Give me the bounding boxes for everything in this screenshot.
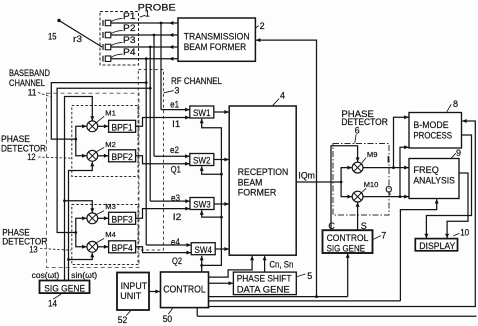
svg-text:I2: I2 (173, 212, 182, 222)
svg-text:cos(ωt): cos(ωt) (32, 271, 60, 280)
svg-text:11: 11 (28, 87, 37, 97)
svg-text:S: S (361, 221, 367, 231)
svg-text:BPF1: BPF1 (111, 122, 133, 133)
svg-text:e1: e1 (170, 100, 179, 110)
svg-text:M10: M10 (364, 180, 379, 189)
svg-text:7: 7 (381, 230, 386, 240)
svg-text:10: 10 (460, 227, 469, 237)
svg-text:4: 4 (280, 90, 285, 100)
svg-text:M9: M9 (367, 150, 378, 159)
svg-text:sin(ωt): sin(ωt) (71, 271, 97, 280)
svg-text:SW1: SW1 (193, 107, 211, 118)
svg-text:DETECTOR: DETECTOR (2, 235, 47, 246)
svg-text:B-MODE: B-MODE (413, 120, 448, 131)
svg-text:I: I (387, 155, 389, 165)
svg-text:I1: I1 (172, 119, 180, 129)
svg-text:P3: P3 (123, 35, 136, 45)
svg-text:M3: M3 (105, 202, 116, 211)
svg-text:DETECTOR: DETECTOR (1, 142, 46, 153)
svg-text:Cn, Sn: Cn, Sn (269, 259, 293, 269)
svg-text:CONTROL: CONTROL (163, 285, 206, 296)
svg-text:BPF3: BPF3 (111, 214, 133, 225)
svg-text:P1: P1 (123, 11, 136, 21)
svg-text:CHANNEL: CHANNEL (9, 77, 45, 88)
svg-text:Q: Q (385, 184, 392, 194)
svg-text:C: C (328, 221, 335, 231)
svg-text:BEAM FORMER: BEAM FORMER (184, 42, 247, 53)
svg-text:PHASE SHIFT: PHASE SHIFT (237, 274, 292, 285)
svg-text:3: 3 (174, 85, 179, 95)
svg-text:DETECTOR: DETECTOR (341, 116, 388, 127)
svg-text:SW3: SW3 (193, 199, 211, 210)
svg-text:1: 1 (145, 9, 150, 19)
svg-text:SW4: SW4 (194, 244, 212, 255)
svg-text:BPF2: BPF2 (111, 152, 133, 163)
svg-text:6: 6 (355, 125, 360, 135)
svg-text:FORMER: FORMER (238, 188, 277, 199)
svg-text:ANALYSIS: ANALYSIS (413, 175, 455, 186)
svg-text:CONTROL: CONTROL (327, 233, 369, 244)
svg-text:PROBE: PROBE (138, 1, 176, 12)
svg-text:e2: e2 (170, 145, 179, 155)
svg-text:5: 5 (307, 271, 312, 281)
svg-text:e3: e3 (171, 193, 180, 203)
svg-text:IQm: IQm (298, 170, 315, 180)
svg-text:DATA GENE: DATA GENE (237, 285, 290, 296)
svg-text:r3: r3 (73, 34, 82, 44)
svg-text:P2: P2 (123, 23, 136, 33)
svg-text:P4: P4 (123, 47, 136, 57)
svg-text:e4: e4 (171, 237, 180, 247)
svg-text:12: 12 (27, 152, 36, 162)
svg-text:PROCESS: PROCESS (413, 131, 452, 142)
svg-text:52: 52 (118, 315, 128, 325)
svg-text:M1: M1 (105, 108, 116, 117)
svg-text:15: 15 (48, 31, 57, 41)
svg-text:M4: M4 (105, 230, 116, 239)
svg-text:M2: M2 (105, 140, 116, 149)
svg-text:Q1: Q1 (171, 165, 181, 175)
svg-text:8: 8 (453, 99, 458, 109)
svg-text:Q2: Q2 (172, 256, 182, 266)
svg-text:SIG GENE: SIG GENE (44, 283, 85, 294)
svg-text:9: 9 (456, 148, 461, 158)
svg-text:2: 2 (260, 21, 265, 31)
svg-text:UNIT: UNIT (120, 291, 141, 302)
svg-text:SW2: SW2 (193, 155, 211, 166)
svg-text:50: 50 (163, 314, 173, 324)
svg-text:SIG GENE: SIG GENE (327, 244, 365, 255)
svg-text:TRANSMISSION: TRANSMISSION (184, 31, 250, 42)
svg-text:BPF4: BPF4 (111, 243, 133, 254)
svg-text:DISPLAY: DISPLAY (419, 241, 456, 252)
svg-text:13: 13 (29, 245, 38, 255)
svg-text:14: 14 (48, 299, 57, 309)
